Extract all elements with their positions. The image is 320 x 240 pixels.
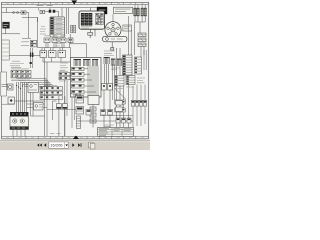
terminal ladder bottom xyxy=(77,116,81,129)
sensor bank row 1 xyxy=(40,87,63,91)
relay K1 xyxy=(21,11,26,14)
diagonal wire xyxy=(115,89,126,100)
connector stack bottom center 1 xyxy=(76,96,84,104)
inline connector band xyxy=(86,110,113,116)
fuse dark pair xyxy=(49,10,52,13)
left tall box lower xyxy=(1,72,7,96)
wires row2 to bus xyxy=(42,48,71,62)
throttle body box xyxy=(34,103,44,111)
toolbar first page button xyxy=(37,143,42,146)
resistor bars hatched xyxy=(71,25,76,33)
ECU internal relay row 5 xyxy=(72,90,85,94)
toolbar xyxy=(0,140,150,150)
ECU internal relay row 1 xyxy=(72,67,85,70)
wire xyxy=(2,85,8,87)
center vertical wires to bottom xyxy=(65,80,75,136)
main connector (dark) bottom left xyxy=(10,112,29,116)
small box right 1 xyxy=(102,84,107,91)
toolbar prev page button xyxy=(44,143,46,147)
connector block (dark) left xyxy=(2,22,9,29)
wire xyxy=(22,17,38,22)
wire from fuse box down xyxy=(90,29,95,38)
pin cluster right of ECU xyxy=(104,57,109,64)
border frame: left edge xyxy=(1,2,3,139)
scan texture xyxy=(2,2,149,139)
device body bottom left xyxy=(10,116,29,129)
right label texts xyxy=(114,78,145,89)
bottom ruler numbers xyxy=(6,137,144,139)
sensor connector row 1 xyxy=(44,38,73,43)
label cluster mid-left xyxy=(11,67,29,69)
ECU internal wires xyxy=(88,66,98,96)
ignition coil L1 (hatched) xyxy=(134,8,139,16)
long vertical wires center-left xyxy=(31,58,47,136)
wire stem below module xyxy=(111,42,113,48)
component box mid xyxy=(28,83,39,93)
label rows left xyxy=(10,61,24,66)
main supply rail wire xyxy=(2,7,97,9)
fuse grid dark cells xyxy=(81,13,92,26)
bottom ruler tick dividers xyxy=(2,136,149,138)
motor M1 xyxy=(8,84,14,90)
sensor bank row 2 xyxy=(40,91,63,95)
fuse box assembly xyxy=(79,11,105,29)
ECU bottom pin ticks xyxy=(74,94,81,97)
driver row left B xyxy=(59,77,70,80)
wire from left box xyxy=(9,51,40,56)
fuse box stem connector xyxy=(88,32,93,35)
wire pair vertical center xyxy=(67,8,69,34)
wire to ECU corner xyxy=(70,48,72,58)
fuse F2 xyxy=(17,12,19,14)
small box right 2 xyxy=(108,84,113,91)
bundle branch wires xyxy=(2,104,47,108)
relay grid right (light) xyxy=(96,13,104,25)
junction mark xyxy=(30,62,32,64)
connector plug xyxy=(111,48,114,51)
small chained components xyxy=(90,107,96,111)
wire drops from rail xyxy=(7,8,91,17)
connector strip right D2 xyxy=(135,57,142,74)
ECU internal stub wires xyxy=(84,69,96,92)
label text mid-left xyxy=(21,39,31,46)
wire bundle vertical xyxy=(17,82,27,112)
bottom fold marker triangle xyxy=(73,136,79,139)
label text top-left xyxy=(37,5,53,7)
label text above title block xyxy=(50,133,61,135)
terminal ladder block X1 xyxy=(50,17,65,37)
relay group labels xyxy=(11,79,30,81)
left tall box xyxy=(2,40,9,60)
ECU main box xyxy=(71,58,102,98)
toolbar page combo xyxy=(49,142,68,148)
driver row left A xyxy=(59,72,70,75)
vertical wires bottom right xyxy=(117,48,124,128)
label rows right of ECU top xyxy=(104,51,115,56)
right connector stack xyxy=(138,33,146,47)
small connector boxes on wires xyxy=(115,100,125,112)
right harness strip rows xyxy=(115,76,125,87)
bus wire mid xyxy=(100,115,133,117)
wire horizontal left xyxy=(2,12,29,14)
coil wires down xyxy=(135,16,145,33)
sensor bank labels xyxy=(44,86,57,96)
wire pair xyxy=(31,48,33,68)
relay group row A xyxy=(11,70,31,73)
wires bottom middle xyxy=(53,96,65,136)
connector stack bottom center 2 xyxy=(76,107,84,115)
connector strip right D1 xyxy=(123,55,133,75)
ECU pin caps xyxy=(74,59,99,61)
wire xyxy=(15,100,45,102)
small component boxes bottom middle xyxy=(57,104,62,109)
label column left of ladder xyxy=(40,27,46,35)
relay box (black) top center xyxy=(97,7,107,14)
junction cluster above title block xyxy=(104,125,114,127)
wires below stack xyxy=(141,47,144,60)
label box top right xyxy=(114,7,133,13)
ECU pin cluster 2 xyxy=(84,59,91,66)
relay group row B xyxy=(11,75,31,78)
wire xyxy=(45,11,59,17)
border frame: right edge xyxy=(147,2,149,139)
border frame: bottom ruler xyxy=(2,136,149,138)
center horizontal wire xyxy=(47,109,76,111)
fuse grid white specks xyxy=(82,14,92,24)
right vline pair xyxy=(144,50,146,70)
toolbar next page button xyxy=(72,143,74,147)
pin cluster mid-right B xyxy=(117,59,121,67)
wires below device xyxy=(13,130,25,137)
fuse F1 xyxy=(13,12,15,14)
ECU internal relay row 4 xyxy=(72,84,85,88)
capacitor C1 xyxy=(30,53,31,58)
wires down from cluster xyxy=(105,64,109,84)
sensor connector row 2 xyxy=(40,51,66,58)
fuse box bottom text xyxy=(81,27,92,28)
top ruler numbers xyxy=(6,2,144,4)
wire long vertical xyxy=(28,13,30,39)
junction dots on bundle xyxy=(16,85,23,89)
vertical wires right of ECU xyxy=(113,64,115,100)
label box right of distributor xyxy=(123,25,132,31)
page background xyxy=(0,0,150,150)
ignition module (rounded bar) xyxy=(103,36,128,42)
bundle fan-out wires xyxy=(17,79,53,87)
long wire right side xyxy=(129,16,135,128)
box bottom center xyxy=(88,96,99,105)
title block xyxy=(98,128,134,137)
top fold marker triangle xyxy=(71,0,77,4)
right vertical wires lower xyxy=(133,85,145,129)
label rows above driver rows xyxy=(60,63,68,70)
driver row labels xyxy=(59,71,68,81)
right small connector row lower xyxy=(116,118,131,123)
coil feed wires xyxy=(135,5,145,9)
component box xyxy=(40,10,45,13)
wire xyxy=(92,105,94,128)
label column right of ladder xyxy=(56,39,62,47)
pin cluster labels xyxy=(111,68,120,70)
ECU pin cluster 1 xyxy=(74,59,81,66)
ignition coil L2 (hatched) xyxy=(141,8,146,16)
distributor (circle) xyxy=(105,22,121,38)
toolbar pages icon xyxy=(89,142,95,149)
toolbar last page button xyxy=(78,143,80,147)
svg-text:16/206: 16/206 xyxy=(50,143,63,148)
pin cluster mid-right A xyxy=(111,59,115,67)
small box lower left xyxy=(8,97,15,104)
right connector row xyxy=(131,100,147,106)
long bus wire bottom xyxy=(78,120,133,122)
ECU internal relay row 2 xyxy=(72,72,85,76)
wire xyxy=(2,29,20,34)
right harness strip rows 2 xyxy=(126,76,135,85)
border frame: top ruler xyxy=(2,2,149,4)
wires from boxes down xyxy=(104,90,110,128)
top ruler tick dividers xyxy=(2,2,149,4)
ECU internal relay row 3 xyxy=(72,78,85,82)
wire bus under row 1 xyxy=(38,17,71,47)
harness top wire xyxy=(70,34,86,58)
ECU pin cluster 3 xyxy=(93,59,98,66)
right mid box xyxy=(116,101,123,106)
sensor bank row 3 xyxy=(40,96,63,100)
connector row labels xyxy=(45,35,66,37)
